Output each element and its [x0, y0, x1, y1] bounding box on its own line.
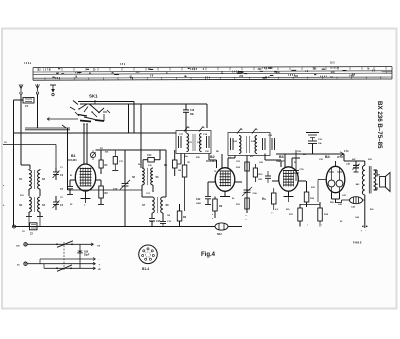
svg-text:7 8 9: 7 8 9 — [205, 77, 211, 79]
resistor R13 — [262, 188, 276, 215]
svg-text:B4: B4 — [325, 155, 330, 159]
mains terminal 90V — [17, 262, 27, 267]
svg-text:5W: 5W — [377, 175, 380, 177]
svg-text:25µF: 25µF — [84, 254, 90, 256]
svg-text:2 3 4: 2 3 4 — [55, 77, 61, 80]
wire B2 plate up — [234, 156, 236, 159]
capacitor C10 — [160, 213, 172, 227]
resistor R1 (B1 screen) — [99, 150, 108, 174]
electrolytic C60 25uF — [77, 244, 90, 268]
capacitor C40 — [346, 158, 360, 172]
svg-text:UBL21: UBL21 — [276, 159, 286, 163]
svg-text:4.7k: 4.7k — [344, 150, 349, 153]
trimmer capacitor C2 — [53, 168, 64, 180]
svg-text:UCH21: UCH21 — [67, 158, 77, 162]
svg-text:*: * — [246, 214, 247, 218]
svg-text:3: 3 — [150, 255, 151, 257]
wire B+ line — [276, 153, 330, 155]
supply line 3 — [27, 262, 100, 266]
mains switch SK2 on bus — [215, 223, 228, 236]
svg-text:*: * — [212, 217, 213, 221]
svg-text:BX 236 B–75–85: BX 236 B–75–85 — [376, 101, 383, 149]
wire SK1 to IF1 — [80, 104, 207, 128]
svg-text:1 2 3 a: 1 2 3 a — [24, 63, 32, 65]
supply line 1 with switch SK3 — [27, 241, 100, 248]
wire SK1 to B1 grid — [84, 124, 87, 164]
capacitor C11 — [112, 150, 123, 171]
trimmer capacitor C4 — [53, 196, 64, 210]
pentode section tube B1 UCH21 — [67, 154, 101, 208]
antenna terminal A1 — [19, 84, 23, 94]
padder capacitor C15 — [149, 219, 161, 227]
svg-text:11 2: 11 2 — [265, 77, 270, 79]
svg-text:-: - — [366, 230, 367, 233]
tube base diagram B1-4 — [139, 245, 158, 271]
wire IF1 left down — [177, 154, 181, 165]
svg-text:4 5 2: 4 5 2 — [75, 72, 81, 75]
wire SK1 to osc coil — [140, 104, 142, 168]
capacitor C24 (trimmer) — [242, 187, 257, 196]
svg-text:-: - — [99, 257, 100, 261]
svg-text:C12: C12 — [113, 188, 118, 191]
antenna series unit Z1 — [14, 98, 35, 109]
svg-text:C16: C16 — [190, 110, 195, 112]
wire IF1 to B2 grid — [209, 154, 217, 169]
model number BX 236 B-75-85 — [376, 101, 383, 149]
svg-text:1 3 7 6: 1 3 7 6 — [43, 69, 51, 71]
svg-text:4: 4 — [149, 255, 150, 258]
svg-text:Fig.4: Fig.4 — [201, 252, 216, 258]
wire antenna A1 down — [21, 94, 30, 169]
svg-text:SK2: SK2 — [217, 233, 222, 236]
capacitor C7 (B1 grid) — [60, 180, 73, 195]
caption Fig.4 — [201, 252, 216, 258]
svg-text:*: * — [246, 218, 247, 222]
svg-text:4 6 3 8: 4 6 3 8 — [190, 68, 198, 71]
resistor R2 (B1 cathode) — [98, 180, 108, 205]
wire B1 plate line — [96, 150, 167, 197]
svg-text:C22: C22 — [196, 198, 201, 201]
wire switch to left with arrow — [47, 118, 78, 121]
wire IF2 to B3 grid — [265, 154, 281, 168]
output terminals — [361, 226, 368, 233]
antenna terminal A2 — [36, 84, 40, 94]
resistor R9 (B2 cathode) — [212, 197, 223, 222]
band switch SK1 contacts — [70, 94, 110, 125]
trimmer capacitor C9 — [90, 150, 95, 160]
wire osc coupling — [142, 196, 152, 198]
supply line 4 with switch — [44, 264, 101, 272]
capacitor C28 — [258, 171, 271, 183]
wire pair to coils — [25, 125, 70, 130]
antenna coil S1/S2 — [19, 169, 46, 196]
wire antenna A2 down — [37, 94, 39, 128]
IF amplifier tube B2 UCH21 — [206, 154, 242, 197]
oscillator coil S5/S6 — [132, 168, 159, 197]
earth terminal — [50, 85, 56, 96]
resistor R7 5M — [178, 154, 191, 212]
wire horizontal bus mid — [14, 104, 177, 133]
svg-text:1: 1 — [147, 252, 148, 254]
wire B4 plate feed — [330, 150, 365, 166]
capacitor C14 100 — [143, 150, 160, 168]
capacitor C30 — [293, 150, 304, 181]
mains terminal 150V — [16, 243, 27, 248]
svg-text:5: 5 — [146, 256, 147, 258]
supply line 2 — [40, 257, 100, 264]
wire osc vertical — [67, 128, 69, 190]
svg-text:UCH21: UCH21 — [206, 159, 216, 163]
dial scale — [24, 62, 392, 80]
svg-text:6: 6 — [145, 255, 146, 257]
svg-text:*: * — [212, 213, 213, 217]
capacitor C43 (oval) — [336, 197, 365, 209]
svg-text:B1-4: B1-4 — [142, 267, 149, 271]
svg-text:16 18 20: 16 18 20 — [330, 68, 340, 70]
rectifier tube B4 UY21 — [318, 155, 345, 203]
misc value labels — [3, 148, 374, 233]
svg-text:+b: +b — [98, 267, 102, 271]
wire SK1 to tuning section — [78, 102, 134, 134]
AVC line with C6 — [3, 142, 56, 168]
svg-text:C60: C60 — [84, 251, 89, 253]
svg-text:1400: 1400 — [196, 202, 202, 205]
bus component Z2 — [30, 223, 38, 236]
wire left bus vertical — [13, 100, 15, 227]
svg-text:7: 7 — [145, 253, 146, 255]
svg-text:1 4 5 8: 1 4 5 8 — [232, 70, 240, 73]
resistor R12 — [253, 164, 263, 182]
output transformer S41 — [356, 161, 371, 228]
IF transformer 2 S33/S34 — [228, 129, 275, 156]
capacitor C16 36k — [183, 104, 195, 133]
resistor R17 — [289, 204, 302, 227]
loudspeaker — [374, 170, 391, 192]
svg-text:C14: C14 — [147, 154, 152, 157]
ground bus — [13, 225, 243, 228]
svg-text:* *: * * — [271, 213, 273, 215]
svg-text:4 5 2: 4 5 2 — [120, 63, 126, 66]
svg-text:7 6 5 4 3: 7 6 5 4 3 — [262, 67, 272, 70]
capacitor C22 — [196, 182, 211, 205]
svg-text:M: M — [367, 68, 369, 70]
antenna coil S3/S4 — [19, 197, 46, 227]
capacitor C31 with ground — [306, 133, 323, 155]
IF transformer 1 S31/S32 — [176, 127, 211, 154]
resistor R18 — [300, 202, 329, 227]
svg-text:5M: 5M — [178, 170, 181, 172]
switch link (dashed) — [63, 242, 65, 270]
resistor R6 — [177, 204, 186, 227]
resistor R11 — [236, 198, 249, 222]
resistor R10 — [236, 156, 249, 214]
svg-text:1W: 1W — [167, 215, 170, 217]
label P 600 E — [353, 242, 362, 245]
svg-text:SK1: SK1 — [89, 94, 98, 99]
resistor R16 — [304, 181, 314, 207]
svg-text:P 600 E: P 600 E — [353, 242, 362, 245]
svg-text:1 8 5 1: 1 8 5 1 — [288, 75, 296, 77]
svg-text:4 0 9 5: 4 0 9 5 — [320, 76, 328, 79]
oscillator coil S7/S8 — [68, 190, 170, 218]
resistor R5 — [164, 150, 177, 176]
output tube B3 UBL21 — [272, 154, 306, 202]
variable capacitor C12 (tuning) — [113, 150, 130, 227]
svg-text:16 3: 16 3 — [330, 62, 335, 64]
